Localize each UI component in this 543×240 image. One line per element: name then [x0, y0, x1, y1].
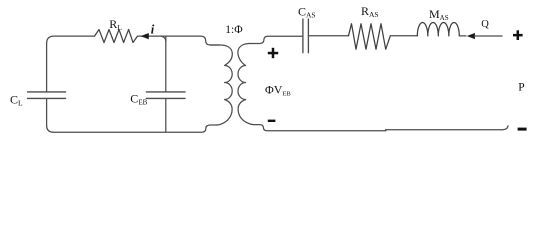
capacitor C_AS plates [303, 19, 309, 53]
wire: secondary bottom connector with step down [254, 125, 386, 131]
svg-text:CEB: CEB [130, 92, 147, 107]
current arrow i [141, 33, 148, 39]
svg-text:1:Φ: 1:Φ [225, 24, 243, 36]
transformer primary winding (left coil) [210, 45, 232, 125]
minus terminal (secondary) [268, 120, 276, 122]
capacitor C_L upper wire (left vertical) [46, 43, 48, 91]
svg-text:i: i [151, 23, 155, 37]
wire: bottom output line with end hook [386, 126, 509, 130]
svg-text:RAS: RAS [361, 4, 379, 19]
capacitor C_EB branch upper wire [165, 37, 167, 92]
wire: R_AS to M_AS [390, 35, 417, 37]
minus terminal (right port) [518, 128, 527, 131]
wire: C_AS to R_AS [308, 35, 348, 37]
svg-text:Q: Q [481, 19, 489, 30]
svg-text:CAS: CAS [298, 4, 316, 19]
wire: M_AS to arrow [459, 35, 466, 37]
svg-text:P: P [518, 82, 524, 94]
arrow Q (left-pointing) [467, 33, 474, 39]
wire: left loop top-left corner and top wire to resistor [47, 36, 95, 43]
svg-text:RL: RL [109, 17, 122, 32]
transformer secondary winding (right coil) [238, 44, 254, 125]
svg-text:ΦVEB: ΦVEB [265, 83, 291, 98]
wire: top wire from resistor past node to step-down into transformer primary [138, 36, 220, 45]
resistor R2 (R_AS) [349, 24, 391, 50]
inductor L1 (M_AS) [417, 23, 459, 36]
wire: arrow tail [474, 35, 502, 37]
svg-text:CL: CL [10, 92, 23, 107]
plus terminal (secondary) [268, 48, 278, 58]
wire: left loop bottom wire with step up to transformer primary [47, 125, 217, 132]
capacitor C_L lower wire [46, 99, 48, 125]
svg-text:MAS: MAS [429, 7, 449, 22]
wire: secondary top connector with step up to output line [249, 36, 302, 43]
plus terminal (right port) [513, 30, 523, 40]
capacitor C_L plates [28, 92, 66, 99]
resistor R1 (R_L) [95, 30, 138, 43]
capacitor C_EB plates [146, 92, 185, 99]
wire: C_EB branch top fillet [162, 36, 166, 41]
capacitor C_EB branch lower wire [165, 99, 167, 132]
